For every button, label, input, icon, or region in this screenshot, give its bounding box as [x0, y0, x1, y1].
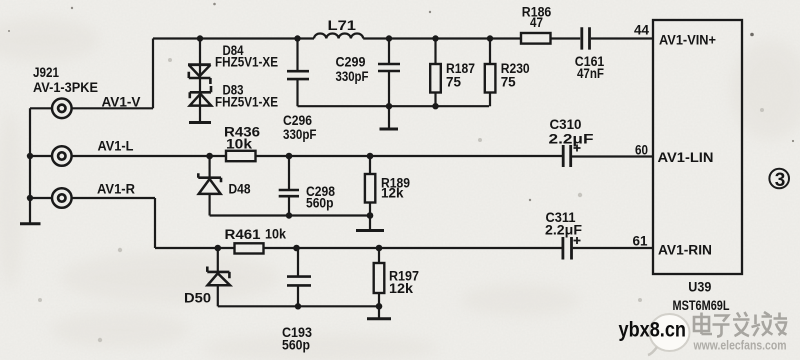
svg-text:ybx8.cn: ybx8.cn — [619, 319, 687, 342]
svg-text:330pF: 330pF — [336, 69, 369, 84]
svg-text:www.elecfans.com: www.elecfans.com — [693, 339, 787, 353]
svg-text:D48: D48 — [229, 182, 251, 197]
svg-text:75: 75 — [446, 75, 461, 90]
svg-text:10k: 10k — [226, 137, 253, 152]
svg-text:U39: U39 — [688, 280, 711, 295]
svg-text:AV1-LIN: AV1-LIN — [658, 150, 714, 165]
svg-text:60: 60 — [635, 143, 648, 158]
svg-text:AV1-VIN+: AV1-VIN+ — [659, 33, 716, 48]
svg-text:12k: 12k — [381, 186, 404, 201]
svg-text:44: 44 — [634, 23, 649, 38]
svg-text:FHZ5V1-XE: FHZ5V1-XE — [215, 55, 278, 70]
svg-text:560p: 560p — [306, 196, 334, 211]
svg-text:12k: 12k — [389, 281, 414, 296]
svg-text:75: 75 — [501, 75, 516, 90]
svg-text:AV-1-3PKE: AV-1-3PKE — [33, 80, 98, 95]
svg-text:L71: L71 — [328, 18, 357, 33]
svg-text:47nF: 47nF — [577, 66, 604, 81]
svg-text:J921: J921 — [33, 65, 59, 80]
svg-text:AV1-R: AV1-R — [97, 182, 135, 197]
svg-text:560p: 560p — [282, 338, 310, 353]
svg-text:10k: 10k — [265, 227, 286, 242]
svg-text:C299: C299 — [336, 55, 366, 70]
svg-text:330pF: 330pF — [283, 127, 317, 142]
svg-text:61: 61 — [633, 234, 648, 249]
svg-text:2.2μF: 2.2μF — [545, 223, 582, 238]
svg-text:AV1-L: AV1-L — [98, 139, 134, 154]
svg-text:AV1-V: AV1-V — [102, 95, 141, 110]
svg-text:AV1-RIN: AV1-RIN — [658, 243, 712, 258]
svg-text:MST6M69L: MST6M69L — [673, 298, 730, 313]
svg-text:C296: C296 — [283, 113, 312, 128]
svg-text:R461: R461 — [225, 227, 262, 242]
svg-text:47: 47 — [530, 15, 543, 30]
svg-text:FHZ5V1-XE: FHZ5V1-XE — [215, 95, 278, 110]
svg-text:C310: C310 — [550, 117, 582, 132]
svg-text:D50: D50 — [184, 291, 211, 306]
svg-text:3: 3 — [775, 170, 786, 191]
svg-text:2.2μF: 2.2μF — [549, 132, 594, 147]
